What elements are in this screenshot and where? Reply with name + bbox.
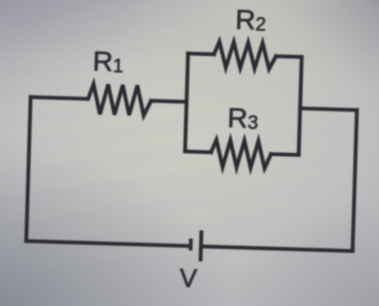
wire R1 to parallel box xyxy=(151,101,186,102)
resistor R1 xyxy=(88,84,152,116)
wire top-left horizontal lead xyxy=(31,97,88,99)
svg-text:R3: R3 xyxy=(227,102,259,134)
wire bottom left segment xyxy=(26,241,189,246)
resistor R3 xyxy=(211,140,272,169)
wire left vertical of outer loop xyxy=(26,97,30,241)
wire top branch left lead xyxy=(188,52,214,57)
wire bottom right segment xyxy=(203,246,353,251)
wire bottom branch left lead xyxy=(185,150,211,155)
wire top branch right lead xyxy=(276,54,302,59)
svg-text:V: V xyxy=(179,263,198,294)
svg-text:R1: R1 xyxy=(92,45,124,77)
wire bottom branch right lead xyxy=(271,152,299,157)
wire output of box to right side xyxy=(300,108,357,110)
battery V long plate xyxy=(199,230,204,261)
wire left vertical of parallel box xyxy=(185,53,188,151)
wire right vertical of outer loop xyxy=(353,110,357,251)
svg-text:R2: R2 xyxy=(235,4,267,36)
resistor R2 xyxy=(214,41,277,69)
wire right vertical of parallel box xyxy=(299,57,302,155)
battery V short plate xyxy=(189,239,193,251)
